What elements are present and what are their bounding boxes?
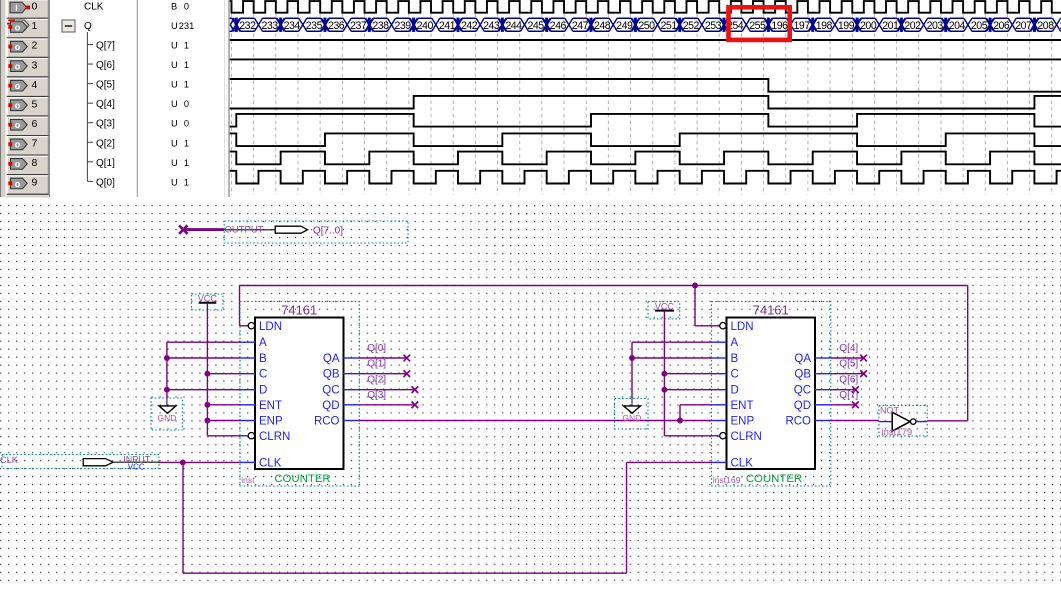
svg-text:246: 246 (550, 20, 567, 32)
wire VCC to CLRN right (664, 435, 711, 437)
svg-text:COUNTER: COUNTER (746, 473, 802, 485)
svg-text:C: C (259, 369, 267, 381)
svg-text:U: U (171, 21, 178, 31)
svg-text:CLK: CLK (84, 1, 104, 12)
svg-text:241: 241 (439, 20, 456, 32)
Q[5] waveform (230, 79, 1061, 92)
svg-text:255: 255 (749, 20, 766, 32)
svg-text:8: 8 (32, 157, 38, 169)
svg-text:1: 1 (184, 138, 189, 148)
svg-text:9: 9 (32, 177, 38, 189)
svg-text:243: 243 (483, 20, 500, 32)
label Q[7] (839, 390, 858, 401)
svg-text:240: 240 (417, 20, 434, 32)
svg-text:Q[7..0]: Q[7..0] (313, 225, 343, 236)
svg-text:o: o (15, 179, 21, 189)
wire CLK input to junction (159, 461, 240, 463)
svg-text:0: 0 (184, 99, 189, 109)
LDN inversion bubble inst (248, 323, 254, 329)
svg-text:5: 5 (32, 98, 38, 110)
svg-text:o: o (15, 101, 21, 111)
tree expand box (62, 20, 75, 32)
svg-text:o: o (15, 140, 21, 150)
wire Q[3] output (359, 404, 415, 406)
svg-text:B: B (731, 353, 739, 365)
label Q[5] (839, 359, 858, 370)
wire right ENT branch (680, 405, 712, 421)
svg-text:0: 0 (184, 119, 189, 129)
label Q[4] (839, 343, 858, 354)
svg-text:Q[5]: Q[5] (839, 359, 858, 370)
svg-text:OUTPUT: OUTPUT (225, 225, 264, 236)
svg-text:Q[3]: Q[3] (96, 119, 115, 130)
svg-text:U: U (171, 80, 178, 90)
junction GND D left (164, 387, 170, 393)
wire GND to B left (167, 357, 240, 359)
dangling X Q[6] (852, 386, 859, 393)
GND symbol left (151, 398, 182, 430)
svg-text:QA: QA (323, 353, 340, 365)
dangling X Q[7] (852, 402, 859, 409)
svg-text:o: o (15, 159, 21, 169)
VCC symbol right (648, 301, 680, 319)
wire Q[7] output (831, 404, 856, 406)
svg-text:196: 196 (771, 20, 788, 32)
junction VCC ENT left (204, 402, 210, 408)
svg-text:U: U (171, 119, 178, 129)
junction CLK net (180, 459, 186, 465)
GND net left vertical (166, 342, 168, 399)
svg-text:252: 252 (683, 20, 700, 32)
svg-text:o: o (15, 22, 21, 32)
svg-text:B: B (259, 353, 267, 365)
svg-text:248: 248 (594, 20, 611, 32)
Q[7] waveform (230, 39, 1061, 41)
svg-text:Q: Q (84, 21, 92, 32)
svg-text:7: 7 (32, 137, 38, 149)
bus wire to output pin (185, 228, 225, 231)
svg-text:206: 206 (993, 20, 1010, 32)
svg-text:234: 234 (284, 20, 301, 32)
svg-text:CLK: CLK (259, 457, 282, 469)
svg-text:203: 203 (927, 20, 944, 32)
signal name column (84, 1, 115, 188)
svg-text:6: 6 (32, 118, 38, 130)
Q[4] waveform (230, 96, 1061, 109)
svg-text:235: 235 (306, 20, 323, 32)
VCC net left vertical (206, 303, 208, 436)
svg-text:198: 198 (816, 20, 833, 32)
svg-text:U: U (171, 138, 178, 148)
wire NOT output feedback to LDN (240, 286, 968, 421)
row header icons and indices (7, 1, 38, 189)
svg-text:inst179: inst179 (882, 427, 913, 438)
svg-text:Q[3]: Q[3] (367, 390, 386, 401)
svg-text:Q[1]: Q[1] (96, 158, 115, 169)
svg-text:Q[6]: Q[6] (96, 60, 115, 71)
svg-text:1: 1 (32, 20, 38, 32)
svg-text:Q[4]: Q[4] (839, 343, 858, 354)
output pin symbol OUTPUT Q[7..0] (224, 221, 408, 243)
svg-text:QC: QC (794, 385, 811, 397)
svg-text:0: 0 (32, 1, 38, 13)
svg-text:74161: 74161 (281, 302, 317, 317)
svg-text:232: 232 (239, 20, 256, 32)
wire Q[1] output (359, 373, 407, 375)
svg-text:QC: QC (322, 385, 339, 397)
wire GND to B right (632, 357, 712, 359)
label Q[1] (367, 359, 386, 370)
column separator (136, 0, 138, 197)
wire VCC to C right (664, 373, 711, 375)
svg-text:236: 236 (328, 20, 345, 32)
svg-text:I: I (15, 3, 18, 13)
svg-text:253: 253 (705, 20, 722, 32)
svg-text:U: U (171, 41, 178, 51)
svg-text:245: 245 (528, 20, 545, 32)
wire VCC to D right (664, 389, 711, 391)
wire Q[0] output (359, 357, 407, 359)
svg-text:NOT: NOT (880, 406, 900, 416)
left counter pin stubs (240, 342, 359, 462)
junction GND B right (629, 355, 635, 361)
LDN inversion bubble inst169 (720, 323, 726, 329)
schematic dot grid (0, 203, 1061, 587)
dangling X Q[5] (860, 370, 867, 377)
right counter pin stubs (712, 342, 831, 462)
svg-text:o: o (15, 42, 21, 52)
wire GND to A left (167, 341, 240, 343)
svg-text:Q[7]: Q[7] (96, 41, 115, 52)
red highlight box (729, 7, 790, 40)
CLRN inversion bubble inst (248, 433, 254, 439)
svg-text:250: 250 (638, 20, 655, 32)
svg-text:C: C (731, 369, 739, 381)
svg-text:RCO: RCO (314, 416, 340, 428)
Q[0] waveform (230, 171, 1061, 184)
junction ENT ENP right (677, 418, 683, 424)
Q bus waveform (230, 18, 1061, 32)
junction VCC C left (204, 371, 210, 377)
wire right LDN branch (695, 286, 720, 326)
svg-text:207: 207 (1015, 20, 1032, 32)
svg-text:237: 237 (350, 20, 367, 32)
dangling X Q[3] (412, 402, 419, 409)
svg-text:D: D (731, 385, 739, 397)
svg-text:U: U (171, 177, 178, 187)
Q[1] waveform (230, 152, 1061, 165)
svg-text:A: A (259, 337, 267, 349)
wire VCC to C left (207, 373, 240, 375)
svg-text:LDN: LDN (259, 321, 282, 333)
time grid lines (232, 0, 1052, 195)
Q[2] waveform (230, 133, 1061, 146)
input pin CLK (0, 454, 159, 471)
VCC net right vertical (663, 311, 665, 436)
svg-text:ENP: ENP (731, 416, 755, 428)
pane left border (0, 0, 50, 197)
svg-text:U: U (171, 99, 178, 109)
wire Q[5] output (831, 373, 864, 375)
svg-text:QB: QB (323, 369, 340, 381)
waveform area border (224, 0, 230, 197)
label Q[3] (367, 390, 386, 401)
svg-text:GND: GND (158, 413, 177, 423)
svg-text:GND: GND (622, 413, 641, 423)
svg-text:199: 199 (838, 20, 855, 32)
svg-text:1: 1 (184, 80, 189, 90)
wire CLK bottom run (183, 462, 712, 573)
svg-text:RCO: RCO (785, 416, 811, 428)
svg-text:249: 249 (616, 20, 633, 32)
svg-text:200: 200 (860, 20, 877, 32)
svg-text:QA: QA (794, 353, 811, 365)
svg-text:233: 233 (261, 20, 278, 32)
svg-text:74161: 74161 (753, 302, 789, 317)
svg-text:Q[0]: Q[0] (367, 343, 386, 354)
svg-text:4: 4 (32, 79, 38, 91)
junction VCC D right (661, 387, 667, 393)
svg-text:CLK: CLK (731, 457, 754, 469)
tree lines (87, 32, 93, 181)
svg-text:3: 3 (32, 59, 38, 71)
junction feedback to right LDN (692, 283, 698, 289)
svg-text:COUNTER: COUNTER (274, 473, 330, 485)
wire Q[2] output (359, 389, 415, 391)
Q[6] waveform (230, 58, 1061, 60)
svg-text:Q[1]: Q[1] (367, 359, 386, 370)
wire VCC to ENT left (207, 404, 240, 406)
dangling X Q[1] (404, 370, 411, 377)
svg-text:U: U (171, 158, 178, 168)
CLK waveform (230, 1, 1061, 13)
wire VCC to CLRN left (207, 435, 240, 437)
wire right RCO to NOT input (831, 420, 879, 422)
svg-text:B: B (171, 1, 177, 11)
CLRN inversion bubble inst169 (720, 433, 726, 439)
wire left RCO to right ENP (359, 420, 711, 422)
dangling X Q[2] (412, 386, 419, 393)
svg-text:o: o (15, 120, 21, 130)
svg-text:Q[4]: Q[4] (96, 99, 115, 110)
svg-text:202: 202 (904, 20, 921, 32)
waveform pane background (0, 0, 1061, 197)
svg-text:197: 197 (794, 20, 811, 32)
svg-text:LDN: LDN (731, 321, 754, 333)
NOT gate inst179 (879, 406, 927, 438)
svg-text:ENT: ENT (731, 400, 754, 412)
value column (171, 1, 194, 187)
dangling X Q[0] (404, 355, 411, 362)
label Q[6] (839, 375, 858, 386)
svg-text:CLRN: CLRN (259, 431, 290, 443)
svg-text:VCC: VCC (128, 463, 145, 472)
svg-text:Q[6]: Q[6] (839, 375, 858, 386)
svg-text:Q[7]: Q[7] (839, 390, 858, 401)
svg-text:o: o (15, 61, 21, 71)
svg-text:244: 244 (505, 20, 522, 32)
74161 counter inst (240, 302, 359, 487)
svg-text:ENP: ENP (259, 416, 283, 428)
svg-text:247: 247 (572, 20, 589, 32)
wire Q[4] output (831, 357, 864, 359)
svg-text:251: 251 (661, 20, 678, 32)
svg-text:CLK: CLK (0, 455, 19, 465)
svg-text:1: 1 (184, 60, 189, 70)
svg-text:242: 242 (461, 20, 478, 32)
GND net right vertical (631, 342, 633, 398)
svg-text:CLRN: CLRN (731, 431, 762, 443)
svg-text:231: 231 (179, 21, 195, 31)
svg-text:inst: inst (241, 475, 255, 485)
waveform row header buttons (7, 0, 49, 197)
label Q[2] (367, 375, 386, 386)
svg-text:A: A (731, 337, 739, 349)
svg-text:1: 1 (184, 158, 189, 168)
svg-text:201: 201 (882, 20, 899, 32)
output pin Q[7..0] dangling X (179, 225, 187, 233)
svg-text:ENT: ENT (259, 400, 282, 412)
Q[3] waveform (230, 114, 1061, 127)
74161 counter inst169 (712, 302, 831, 487)
svg-text:QD: QD (794, 400, 811, 412)
svg-text:1: 1 (184, 177, 189, 187)
svg-text:238: 238 (372, 20, 389, 32)
GND symbol right (615, 399, 648, 430)
svg-text:2: 2 (32, 40, 38, 52)
svg-text:204: 204 (949, 20, 966, 32)
svg-text:208: 208 (1037, 20, 1054, 32)
Q bus values (239, 20, 1061, 32)
svg-text:0: 0 (184, 1, 189, 11)
svg-text:239: 239 (394, 20, 411, 32)
VCC symbol left (192, 294, 224, 310)
junction VCC ENP left (204, 418, 210, 424)
dangling X Q[4] (860, 355, 867, 362)
wire Q[6] output (831, 389, 856, 391)
svg-text:U: U (171, 60, 178, 70)
svg-text:QD: QD (322, 400, 339, 412)
svg-text:205: 205 (971, 20, 988, 32)
svg-text:o: o (15, 81, 21, 91)
svg-text:1: 1 (184, 41, 189, 51)
svg-text:Q[2]: Q[2] (367, 375, 386, 386)
junction VCC C right (661, 371, 667, 377)
svg-text:QB: QB (794, 369, 811, 381)
wire GND to D left (167, 389, 240, 391)
junction GND B left (164, 355, 170, 361)
svg-text:Q[0]: Q[0] (96, 177, 115, 188)
svg-text:inst169: inst169 (713, 475, 741, 485)
wire VCC to ENP left (207, 420, 240, 422)
svg-text:Q[5]: Q[5] (96, 80, 115, 91)
wire GND to A right (632, 341, 712, 343)
svg-text:D: D (259, 385, 267, 397)
svg-text:Q[2]: Q[2] (96, 138, 115, 149)
label Q[0] (367, 343, 386, 354)
